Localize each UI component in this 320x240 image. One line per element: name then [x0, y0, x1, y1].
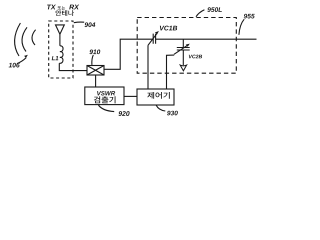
label 106	[9, 63, 20, 68]
label 955	[244, 14, 255, 19]
open arrowhead below VC2B	[180, 65, 186, 71]
label L1	[52, 56, 59, 60]
label 930	[167, 111, 178, 116]
label 910	[89, 49, 100, 54]
main line right of VC1B to output 955	[156, 38, 257, 40]
label 904	[85, 22, 96, 27]
leader arrow for 106	[17, 58, 26, 64]
VSWR detector box 920	[85, 87, 124, 105]
leader for 920	[98, 105, 114, 112]
leader for 910	[92, 55, 93, 65]
label 920	[118, 111, 129, 116]
wire antenna to coupler	[59, 63, 87, 70]
controller box 930	[137, 89, 174, 105]
radiated wave arc 2	[22, 27, 27, 51]
label VC2B	[189, 55, 202, 59]
text TX or RX	[47, 5, 56, 10]
leader for 930	[156, 105, 165, 111]
leader for 955	[239, 19, 244, 35]
antenna symbol	[56, 25, 65, 34]
text antenna (Korean)	[56, 10, 74, 16]
VC1B arrow	[148, 34, 157, 46]
dashed box 950L (matching network)	[137, 18, 236, 74]
control line to VC1B	[147, 45, 149, 89]
control line to VC2B	[167, 55, 175, 89]
VC2B arrow	[174, 45, 188, 54]
wire coupler right + riser to main line	[104, 39, 153, 69]
leader for 950L	[196, 10, 204, 17]
radiated wave arc 3	[32, 30, 36, 45]
wire VSWR to controller	[124, 95, 137, 97]
wire coupler bottom to VSWR detector	[95, 75, 97, 87]
dashed box 904 (antenna block)	[49, 21, 73, 78]
variable capacitor VC1B (series)	[153, 34, 155, 44]
radiated wave arc 1	[15, 23, 21, 56]
directional coupler 910 (box with X)	[87, 66, 104, 76]
leader for 904	[74, 21, 84, 24]
label 950L	[207, 7, 222, 12]
variable capacitor VC2B (shunt)	[182, 39, 184, 47]
label VC1B	[160, 26, 177, 31]
inductor L1	[59, 46, 63, 64]
